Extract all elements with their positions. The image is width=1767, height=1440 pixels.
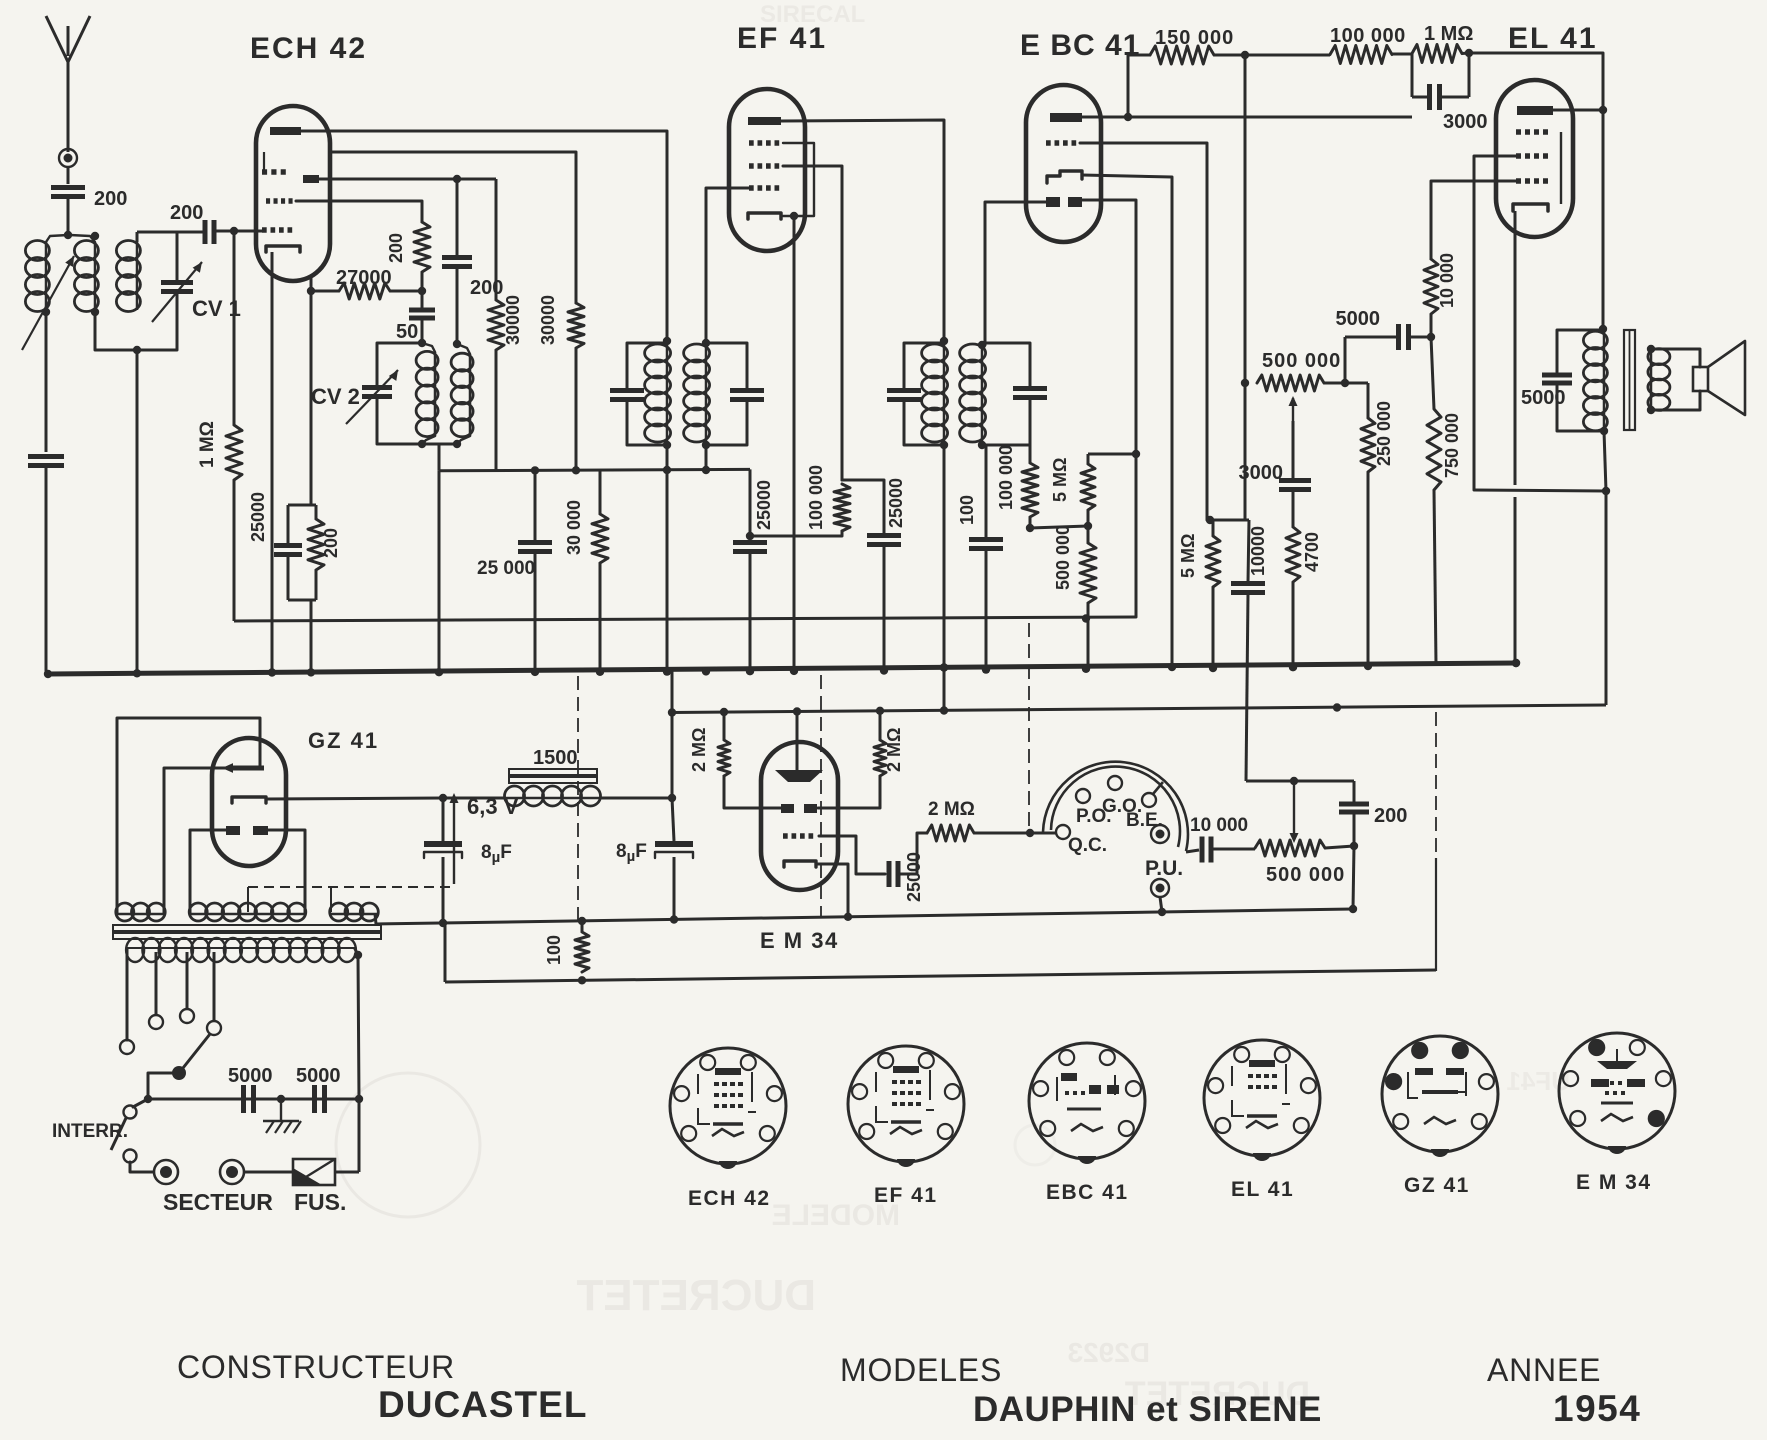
wire 200 to grid leak node [421,272,424,291]
capacitor 5000 (mains filter 1) [241,1085,246,1113]
wire fuse to primary [335,1171,359,1174]
tube EBC41 V3 [1026,85,1101,242]
EL41 grid 3 row [1516,129,1521,135]
wire 8uF smoothing to heater line [673,857,676,920]
node 27000 left [307,287,315,295]
terminal P.U. top [1151,825,1169,843]
dash-dot section line A [577,676,579,920]
wire series cap to ECH42 grid [215,230,262,233]
svg-text:30000: 30000 [538,295,558,345]
capacitor 200 (RF bypass volume) [1339,802,1369,807]
node volume top [1206,516,1214,524]
decoupling rail [439,469,750,470]
wire volume link [1207,519,1249,522]
resistor 150000 (plate load) [1150,46,1214,64]
resistor 1 Mohm (AVC) [226,425,242,480]
resistor 10000 (EL41 grid stopper) [1424,259,1438,314]
wire ECH42 cathode to ground bus [271,252,274,673]
svg-text:2 MΩ: 2 MΩ [928,799,975,820]
svg-text:500 000: 500 000 [1266,864,1345,886]
wire divider link [1030,526,1088,528]
resistor 250000 [1367,383,1370,418]
terminal P.U. bottom [1151,879,1169,897]
wire 100000 to divider [1029,517,1032,528]
wire EBC41 diode1 to IF2 secondary [985,202,1047,345]
IF transformer T2 secondary coil [960,344,986,362]
svg-text:100 000: 100 000 [1330,25,1406,47]
node osc tank top [418,339,426,347]
svg-text:30 000: 30 000 [564,500,584,555]
svg-text:DUCASTEL: DUCASTEL [378,1384,587,1425]
svg-text:5 MΩ: 5 MΩ [1178,534,1198,578]
tube ECH42 V1 [256,106,330,281]
svg-text:200: 200 [321,528,341,558]
svg-text:200: 200 [170,202,203,224]
EF41 cathode bar [748,213,781,219]
EL41 cathode bar [1513,204,1548,211]
antenna [67,62,70,152]
wire EF41 plate to IF2 primary [781,120,944,341]
wire osc anode line [319,178,457,181]
voltage selector lever [172,1066,186,1080]
capacitor 100 (detector) [985,445,988,537]
svg-text:5000: 5000 [1336,308,1381,330]
return line (bottom) [445,970,1436,982]
coil L5 (osc tank) [422,343,435,352]
wire EM34 grid network [898,833,927,874]
capacitor 3000 (tone) [1279,478,1311,483]
power transformer secondary winding 1 (rectifier HV) [116,903,134,921]
wire C2 to ground bus [45,466,48,674]
svg-text:1 MΩ: 1 MΩ [1424,23,1473,45]
tube EF41 V2 [729,89,805,251]
node antenna coil top [64,231,72,239]
wire cap200 to osc coil L6 [456,267,459,344]
EM34 cathode bar [784,861,816,867]
wire EM34 cathode to heater line [816,864,848,917]
coil L3 (RF tuned) [116,241,140,261]
wire AF coupling down to volume pot [1246,594,1248,781]
ghost bleed-through artifacts (decorative) [336,1073,1055,1217]
capacitor 25000 (cathode) [287,505,290,544]
EL41 grid 1 row [1516,178,1521,184]
resistor 100000 (decoupling) [1330,46,1392,64]
wire 100000 to RC node [1392,53,1412,56]
capacitor 25000 (EM34 grid) [887,861,892,887]
svg-text:ANNEE: ANNEE [1487,1352,1601,1388]
svg-text:100: 100 [544,935,564,965]
wire filament left lead [190,830,226,914]
svg-text:250 000: 250 000 [1374,401,1394,466]
potentiometer 500000 (volume) [1255,840,1325,856]
node pot1 left [1241,379,1249,387]
wire IF2 primary bottom to buses [943,445,946,668]
svg-text:25000: 25000 [904,852,924,902]
resistor 30000 (osc #1) [488,300,504,350]
node divider left [1026,524,1034,532]
node IF1 primary top [663,337,671,345]
antenna terminal [59,149,77,167]
wire EL41 g1 lead [1431,181,1518,259]
wire B+ node to 100000 [1245,54,1330,57]
wire screen feed to output transformer node [1474,490,1606,491]
svg-text:1954: 1954 [1553,1388,1641,1429]
variable capacitor CV2 [377,343,422,386]
svg-text:4700: 4700 [1302,532,1322,572]
node secondary bottom [1647,406,1655,414]
wire 30000 #1 to rail [495,350,498,471]
node ground bus right end [1512,659,1520,667]
power transformer secondary winding 2 (filament) [189,903,207,921]
svg-text:500 000: 500 000 [1053,525,1073,590]
EBC41 diode plates [1046,197,1060,207]
node IF2 secondary top [978,341,986,349]
heater line [376,909,1353,924]
wire 30000 #3 to ground bus [599,563,602,672]
wire ECH42 screen to 30000 dropper [331,152,576,303]
wire filament right lead [268,830,305,914]
wire C1 to coil node [67,197,70,235]
wire 25000 to ground bus [534,552,537,672]
switch INTERR [124,1106,137,1119]
wire antenna to C1 [67,167,70,184]
wire 30000 to decoupling rail [575,348,578,471]
resistor 30000 (rail #3) [599,470,602,514]
wire EF41 cathode to ground bus [793,216,796,671]
node osc anode [453,175,461,183]
wire 4700 to ground bus [1292,582,1295,667]
wire screen node to bypass cap 25000 [842,480,884,534]
node secondary top [1647,345,1655,353]
wire AVC node down to 1 Mohm [233,231,236,425]
svg-text:25000: 25000 [886,478,906,528]
wire pot1 right [1324,382,1368,385]
wire 5000 to EL41 grid node [1409,336,1431,339]
svg-text:30000: 30000 [503,295,523,345]
capacitor 200 (osc anode) [456,179,459,257]
node B+ filter [668,794,676,802]
svg-text:750 000: 750 000 [1442,413,1462,478]
node IF1 secondary bottom [702,441,710,449]
node tank bottom [133,346,141,354]
svg-text:1500: 1500 [533,747,578,769]
coil L6 (osc feedback) [457,344,470,354]
ECH42 plate bar [270,127,301,135]
wire tank bottom to ground bus [136,350,139,673]
svg-text:E M 34: E M 34 [760,928,839,953]
wire IF1 primary bottom to rail and bus [666,445,669,470]
wire EBC41 triode grid to volume control [1080,143,1207,520]
wire GZ41 plate 2 lead [164,768,230,914]
AF line to volume network [1246,780,1354,783]
primary tap leads [126,949,129,1040]
node rail 576 [572,466,580,474]
capacitor 25000 (cathode bypass EF41) [733,540,767,545]
node divider right [1084,522,1092,530]
terminal SECTEUR 2 [220,1160,244,1184]
ECH42 oscillator anode bar [303,175,319,183]
IF transformer T1 secondary coil [684,344,710,362]
capacitor (L1 to ground bus) [28,454,64,459]
switch contact G.O. [1108,776,1122,790]
capacitor 3000 (coupling) [1411,54,1414,97]
capacitor 8uF (reservoir) [442,798,445,841]
node fuse branch [355,1095,363,1103]
svg-text:25 000: 25 000 [477,558,535,579]
power transformer core [113,925,381,931]
EF41 grid 1 row [749,185,754,191]
svg-text:100 000: 100 000 [996,445,1016,510]
node volume pot right [1350,842,1358,850]
wire bypass to ground bus [883,545,886,671]
svg-text:5000: 5000 [228,1065,273,1087]
tube socket GZ 41 [1382,1036,1498,1152]
wire P.U. to heater line [1160,897,1162,912]
wire L1 to C2 [45,312,48,452]
capacitor 10000 (P.U. coupling) [1200,837,1205,863]
wire 8uF reservoir to heater line [442,857,445,923]
svg-text:GZ 41: GZ 41 [1404,1174,1470,1197]
GZ41 filament squares [226,826,240,835]
potentiometer 500000 (tone) [1257,375,1324,391]
wire grid line (L3/CV1 top to series cap) [137,231,204,234]
power transformer secondary winding 3 (6.3V) [330,903,348,921]
resistor 500000 (AVC divider) [1087,526,1090,543]
tube EM34 V6 (magic eye) [761,742,838,890]
node EL41 grid bottom [1427,333,1435,341]
EF41 grid 3 row [749,163,754,169]
resistor 1 Mohm (grid leak EL41) [1412,45,1462,63]
node pot1 right [1341,379,1349,387]
svg-text:EF 41: EF 41 [874,1184,938,1207]
mains RC line [148,1098,359,1101]
wire secondary to speaker [1651,349,1700,367]
wire EM34 grid lead [819,836,885,874]
junction dots on heater line [439,919,447,927]
svg-text:SECTEUR: SECTEUR [163,1189,273,1215]
wire osc grid row to 200 resistor [296,201,422,222]
switch contact P.O. [1076,789,1090,803]
capacitor 5000 (tone across primary) [1557,330,1603,372]
svg-text:25000: 25000 [754,480,774,530]
wire return line left riser [444,923,447,982]
wire EBC41 diode2 to AVC [1082,200,1136,617]
node EL41 plate junction [1599,106,1607,114]
dash-dot section line D [1435,712,1437,858]
resistor 100000 (detector load) [1029,445,1032,463]
ECH42 cathode bias network [288,504,316,507]
svg-text:DUCRETET: DUCRETET [576,1271,816,1320]
capacitor IF2 secondary (parallel) [982,343,1030,387]
svg-text:MODELES: MODELES [840,1352,1002,1388]
svg-text:150 000: 150 000 [1155,27,1234,49]
capacitor 8uF (smoothing) [672,798,674,841]
node L2 bottom [91,308,99,316]
capacitor 25000 (screen bypass EF41) [867,533,901,538]
capacitor IF1 secondary (parallel) [706,343,747,389]
output transformer primary coil [1583,331,1607,349]
svg-text:10 000: 10 000 [1190,815,1248,836]
capacitor 200 (antenna) [51,185,85,190]
junction dots on B+ line [668,708,676,716]
node output transformer primary bottom [1600,427,1608,435]
svg-text:25000: 25000 [248,492,268,542]
tube EL41 V4 [1496,80,1573,237]
GZ41 plate bar with arrow [230,766,264,771]
variable capacitor CV1 [176,232,179,281]
wire 5000 coupling branch [1344,337,1347,383]
svg-text:EL 41: EL 41 [1231,1178,1294,1201]
resistor 200 (cathode) [315,505,318,519]
wire rectifier plate loop [117,718,260,914]
wire osc return to ground bus [438,471,441,672]
svg-text:CV 2: CV 2 [311,384,360,409]
wire ECH42 plate to IF1 primary [301,131,667,341]
wire 750000 to ground bus [1434,490,1436,664]
resistor 2 Mohm (EM34 right) [879,711,882,740]
wire choke to B+ node [600,797,672,800]
node 100 bottom [578,976,586,984]
tube socket EBC 41 [1029,1043,1145,1159]
svg-text:2 MΩ: 2 MΩ [884,728,904,772]
ECH42 signal grid row [262,227,267,233]
EBC41 cathode bar [1047,171,1082,183]
wire EM34 target feed [796,712,799,771]
wire EL41 cathode to ground bus [1514,211,1517,485]
svg-text:27000: 27000 [336,267,392,289]
node IF1 secondary top [702,339,710,347]
ECH42 cathode [266,246,300,252]
svg-text:Q.C.: Q.C. [1068,835,1107,856]
junction dots on ground bus [44,670,52,678]
wire osc anode to 30000 dropper #1 [495,179,498,300]
power transformer primary winding [126,938,144,962]
wire EF41 g3 to 100000 [783,166,842,480]
IF transformer T1 primary coil [645,344,671,362]
wire primary bottom to B+ line [1604,431,1606,491]
wire 5 Mohm to ground bus [1212,587,1215,668]
node AF junction [1290,777,1298,785]
EBC41 plate bar [1050,113,1082,122]
svg-text:FUS.: FUS. [294,1189,346,1215]
svg-text:D2923: D2923 [1067,1337,1150,1368]
svg-text:INTERR.: INTERR. [52,1121,128,1142]
filter choke 1500 coil [443,797,505,800]
svg-text:2 MΩ: 2 MΩ [689,728,709,772]
6.3V heater arrow [453,800,455,884]
switch contact B.E. [1142,793,1156,807]
node switch feed [1026,829,1034,837]
B+ line (lower) [672,705,1606,713]
EF41 grid 2 row [749,140,754,146]
svg-text:EF 41: EF 41 [737,22,827,55]
ECH42 oscillator grid row 2 [266,198,270,204]
wire 2 Mohm right to EM34 [818,776,880,808]
svg-text:500 000: 500 000 [1262,350,1341,372]
EL41 internal bracket [1560,132,1562,204]
svg-text:6,3 V: 6,3 V [467,794,519,819]
svg-text:DAUPHIN et SIRENE: DAUPHIN et SIRENE [973,1390,1322,1429]
EM34 target (fluorescent screen) [775,770,823,782]
node IF2 secondary bottom [978,441,986,449]
wire 100 cap to ground bus [985,549,988,670]
svg-text:5 MΩ: 5 MΩ [1050,458,1070,502]
tube socket ECH 42 [670,1048,786,1164]
resistor 100 (hum bias) [581,921,584,932]
wire osc triode line [310,278,313,291]
wire osc tank bottom return [422,443,457,446]
GZ41 cathode bar [232,797,266,803]
wire 10000 to volume pot [1211,848,1255,851]
wire switch output [1186,850,1199,852]
EM34 deflector plates [781,804,794,813]
wire 5 Mohm top link [1088,453,1136,456]
resistor 200 (osc grid) [414,222,430,272]
svg-text:5000: 5000 [296,1065,341,1087]
svg-text:CONSTRUCTEUR: CONSTRUCTEUR [177,1349,455,1385]
svg-text:200: 200 [386,233,406,263]
wire SECTEUR to fuse [245,1171,293,1174]
node screen/B+ junction [1602,487,1610,495]
wire volume right to heater line [1353,846,1354,909]
node IF2 primary bottom [940,441,948,449]
svg-text:50: 50 [396,321,418,343]
capacitor 50 (osc grid) [421,291,424,309]
wire 2 Mohm left to EM34 target anode [724,776,781,808]
node IF2 primary top [940,337,948,345]
svg-text:B.E.: B.E. [1126,810,1163,831]
long wire B+ to tone pot (V1) [1244,55,1247,383]
coil L1 (antenna primary, tunable) [46,235,68,242]
node output transformer primary top [1599,325,1607,333]
tube socket E M 34 [1559,1033,1675,1149]
tube socket EF 41 [848,1046,964,1162]
wire 150000 to B+ node [1214,54,1245,57]
node AVC top [1132,450,1140,458]
wire AF to 200 cap [1353,781,1356,802]
IF transformer T2 primary coil [922,344,948,362]
wire GZ41 cathode output (B+) [266,798,443,799]
wire selector to mains node [148,1073,179,1099]
capacitor 25000 (screen bypass) [534,470,537,541]
dash-dot section line B [820,675,822,916]
ground bus (thick) [48,663,1516,674]
output transformer core [1624,330,1635,430]
wire IF1 secondary bottom to rail [705,445,708,470]
wire grid stopper to cap node [1430,314,1433,337]
wire B+ line to EL41 plate and output transformer [1469,53,1603,110]
capacitor 5000 (coupling to EL41) [1345,336,1396,339]
filter choke 1500 core [509,769,597,775]
wire tone cap to pot wiper [1292,467,1295,480]
wire INTERR to SECTEUR [130,1162,153,1172]
resistor 5 Mohm (grid return) [1212,520,1215,536]
resistor 4700 (NFB) [1292,491,1295,527]
node L1 bottom [42,308,50,316]
EL41 plate bar [1517,106,1553,115]
coil L2 (antenna secondary) [91,232,99,240]
ECH42 oscillator grid row [262,169,267,175]
dash-dot section line C [1028,623,1030,831]
svg-text:P.U.: P.U. [1145,857,1183,880]
node EBC41 plate junction [1124,113,1132,121]
wire EBC41 cathode to ground bus [1082,175,1172,667]
EM34 grid row [783,833,788,839]
tube socket EL 41 [1204,1040,1320,1156]
wire EL41 plate to B+ node [1553,109,1603,112]
resistor 750000 [1427,409,1441,490]
wire 1 Mohm to AVC line [233,480,236,621]
